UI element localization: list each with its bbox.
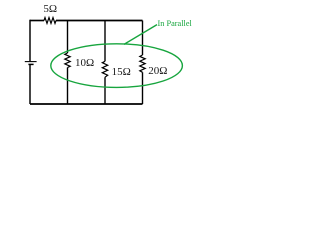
wire left branch lower (battery to bottom wire) <box>29 64 31 104</box>
annotation ellipse (green, encircles parallel resistors) <box>51 44 183 88</box>
annotation pointer line <box>124 25 157 45</box>
svg-text:10Ω: 10Ω <box>75 57 94 69</box>
resistor 5Ω (horizontal zigzag) <box>44 18 56 24</box>
wire middle branch 2 lower <box>104 77 106 104</box>
wire left branch upper (to battery) <box>29 20 31 62</box>
wire middle branch 1 lower <box>67 68 69 105</box>
wire middle branch 1 upper <box>67 21 69 54</box>
resistor 15Ω (vertical zigzag) <box>102 61 107 77</box>
resistor 10Ω (vertical zigzag) <box>65 53 70 68</box>
svg-text:15Ω: 15Ω <box>112 66 131 78</box>
wire top-right segment <box>56 20 143 22</box>
wire right branch upper <box>142 21 144 56</box>
battery V1 long plate (+) <box>25 61 37 63</box>
wire right branch lower <box>142 72 144 104</box>
resistor 20Ω (vertical zigzag) <box>140 55 145 72</box>
svg-text:In Parallel: In Parallel <box>158 19 193 28</box>
battery V1 short plate (-) <box>28 63 33 65</box>
wire bottom <box>30 103 143 105</box>
svg-text:20Ω: 20Ω <box>148 65 167 77</box>
wire middle branch 2 upper <box>104 21 106 62</box>
wire top-left segment (node A to R 5ohm) <box>30 20 44 22</box>
svg-text:5Ω: 5Ω <box>43 3 57 15</box>
